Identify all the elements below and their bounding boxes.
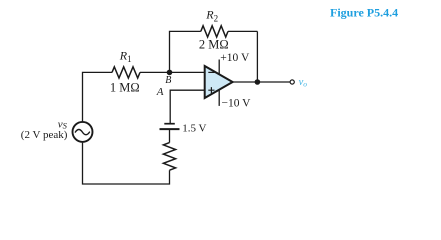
node B (junction dot): [167, 70, 173, 76]
wire: feedback right drop to output node: [256, 31, 258, 82]
battery 1.5 V (long positive plate): [160, 128, 180, 130]
svg-text:+10 V: +10 V: [220, 52, 250, 64]
op-amp U1 minus pin mark: [208, 71, 214, 73]
svg-text:A: A: [156, 86, 164, 98]
svg-text:R2: R2: [205, 8, 218, 24]
voltage source vs (AC source circle): [73, 122, 93, 142]
wire: feedback left riser and top run: [170, 31, 258, 72]
svg-text:R1: R1: [119, 49, 132, 65]
wire: noninverting input run from node A drop: [170, 90, 205, 123]
svg-text:1.5 V: 1.5 V: [182, 123, 206, 135]
resistor R2: [201, 26, 228, 37]
node: output junction dot: [255, 79, 261, 85]
wire: source top riser and inverting-input run: [83, 72, 205, 121]
voltage source vs sine mark: [75, 130, 89, 135]
battery 1.5 V (short negative plate): [164, 123, 175, 125]
op-amp U1 plus pin mark: [208, 87, 214, 93]
svg-text:1 MΩ: 1 MΩ: [110, 80, 140, 94]
supply -10 V lead: [218, 90, 220, 106]
resistor (unlabeled, vertical): [163, 143, 175, 171]
wire: bottom return run: [83, 143, 170, 184]
resistor R1: [112, 67, 140, 78]
svg-text:−10 V: −10 V: [222, 98, 252, 110]
svg-text:2 MΩ: 2 MΩ: [199, 38, 229, 52]
svg-text:vo: vo: [299, 77, 308, 89]
svg-text:(2 V peak): (2 V peak): [21, 129, 68, 141]
terminal vo (open circle): [290, 80, 294, 84]
svg-text:B: B: [165, 75, 171, 86]
wire: battery to resistor: [169, 129, 171, 143]
supply +10 V lead: [218, 60, 220, 75]
wire: output run: [232, 81, 290, 83]
svg-text:Figure P5.4.4: Figure P5.4.4: [330, 6, 398, 20]
op-amp U1: [205, 66, 233, 98]
